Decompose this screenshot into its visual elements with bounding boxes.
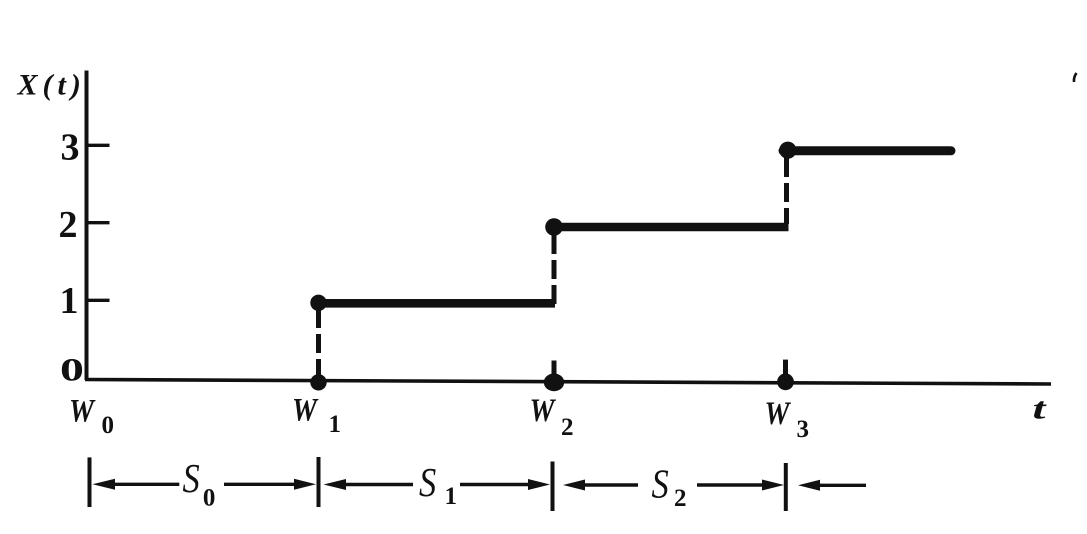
arrowhead left of S1 span [324, 479, 347, 490]
step level 1 dot [310, 295, 326, 311]
tick y=2 [87, 221, 110, 224]
step level 2 segment [549, 223, 789, 232]
svg-text:W: W [765, 395, 792, 432]
svg-text:S: S [419, 460, 436, 505]
arrowhead right of S0 span [294, 479, 316, 490]
svg-text:W: W [292, 392, 319, 429]
dashed riser at W1 [316, 309, 321, 376]
svg-text:0: 0 [60, 351, 84, 388]
axis dot at W2 [544, 373, 564, 391]
tick y=1 [87, 299, 110, 302]
S0 left line [112, 483, 179, 486]
arrowhead left of S0 span [93, 479, 116, 490]
S2 left line [582, 483, 638, 486]
step level 2 dot [545, 218, 563, 236]
interval bar at W1 [317, 457, 321, 507]
svg-text:S: S [183, 456, 200, 501]
S1 left line [343, 483, 413, 486]
dash stub above axis dot W2 [552, 361, 557, 377]
interval bar at W3 [784, 463, 788, 511]
stray mark top right [1074, 73, 1077, 82]
arrowhead right of S2 span [762, 480, 784, 491]
interval bar at W2 [551, 462, 555, 512]
svg-text:2: 2 [59, 204, 78, 246]
svg-text:2: 2 [674, 485, 687, 512]
S3 line stub (cut off) [817, 484, 866, 487]
y-axis [85, 71, 89, 381]
svg-text:0: 0 [203, 485, 216, 512]
svg-text:S: S [652, 462, 669, 507]
svg-text:1: 1 [329, 411, 342, 438]
svg-text:t: t [1033, 391, 1047, 426]
svg-text:1: 1 [60, 280, 79, 322]
axis dot at W3 [777, 373, 794, 390]
svg-text:2: 2 [561, 414, 574, 441]
dashed riser at W3 [784, 158, 789, 224]
svg-text:0: 0 [102, 412, 115, 439]
step level 3 dot [779, 142, 796, 159]
x-axis (time axis) [85, 380, 1051, 385]
svg-text:W: W [530, 392, 557, 429]
svg-text:3: 3 [61, 127, 80, 169]
svg-text:W: W [69, 392, 96, 429]
svg-text:1: 1 [445, 483, 458, 510]
step level 3 segment [783, 146, 951, 155]
S0 right line [224, 483, 299, 486]
interval bar at W0 [88, 457, 92, 507]
S1 right line [460, 483, 532, 486]
dash stub above axis dot W3 [783, 360, 788, 376]
arrowhead left of S3 span (cut) [798, 480, 820, 491]
tick y=3 [87, 144, 110, 147]
step level 1 segment [314, 299, 555, 308]
arrowhead right of S1 span [528, 479, 550, 490]
arrowhead left of S2 span [563, 480, 585, 491]
axis dot at W1 [310, 374, 326, 390]
svg-text:X(t): X(t) [17, 69, 86, 102]
svg-text:3: 3 [797, 416, 810, 443]
dashed riser at W2 [552, 235, 557, 305]
S2 right line [697, 483, 768, 486]
